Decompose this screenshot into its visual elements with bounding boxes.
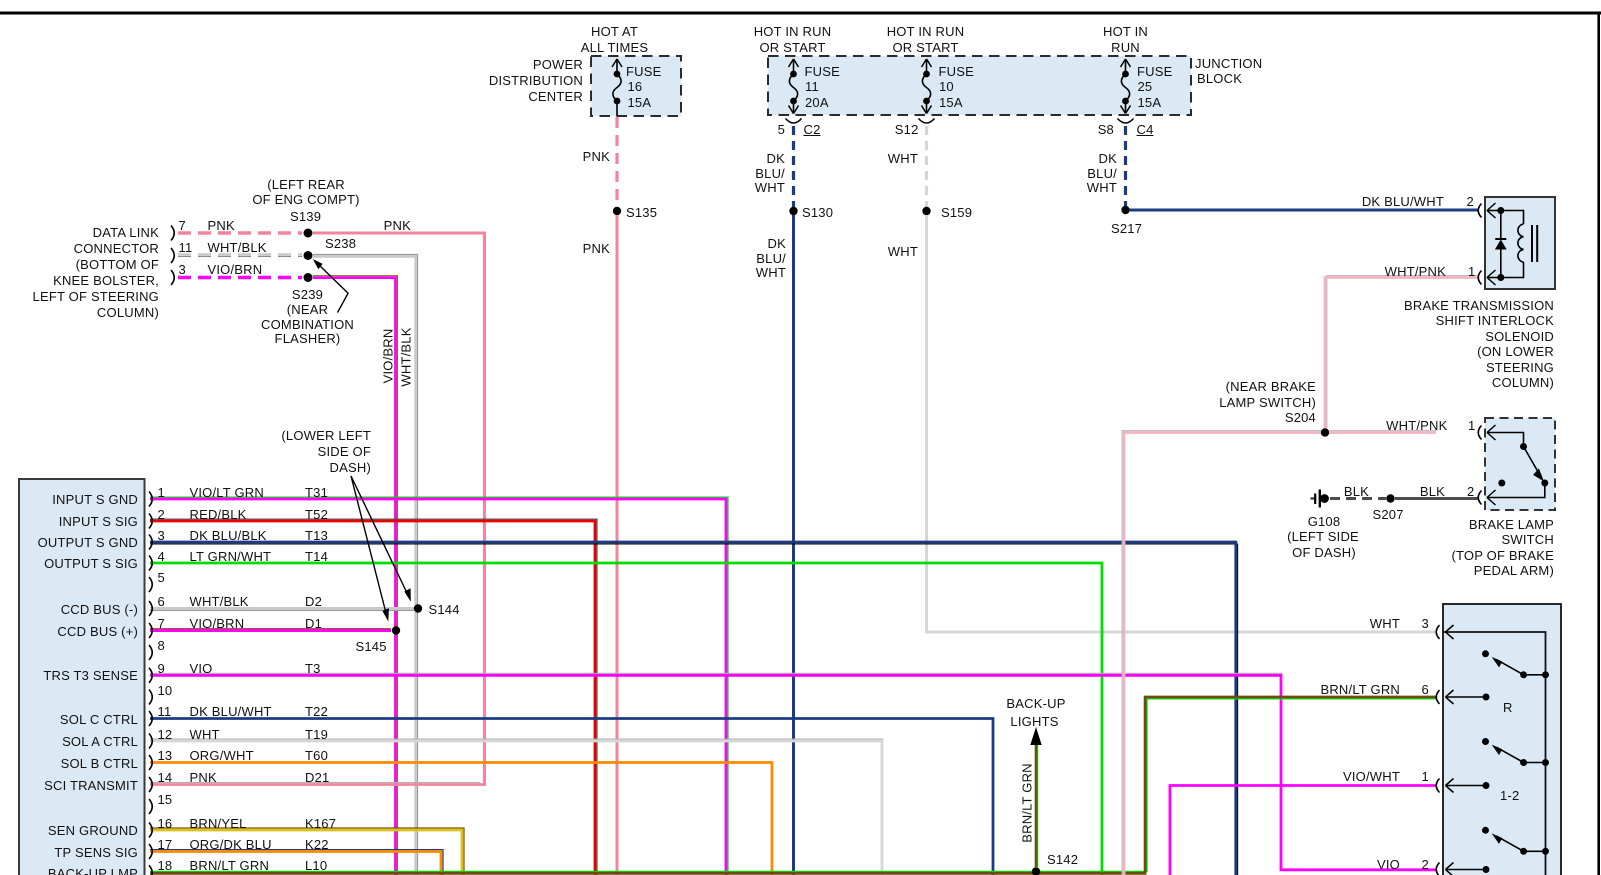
wire WHT from fuse 10 (dashed) <box>925 126 928 207</box>
wire PNK DLC pin 7 (dashed) to S139 <box>178 231 302 234</box>
wire DK BLU/WHT from fuse 11 (dashed) <box>792 126 795 207</box>
fuse F11 20A <box>789 59 799 114</box>
power distribution center box <box>591 56 681 116</box>
wire DK BLU/WHT from S217 to BTSI solenoid pin 2 <box>1129 209 1479 212</box>
wire WHT from S159 down to TRS pin 3 <box>927 215 1437 632</box>
solenoid pin 2 arrow <box>1487 203 1496 218</box>
wire BRN/YEL pin 16 (K167) <box>150 828 464 875</box>
wire BRN/LT GRN branch to back-up lights (arrow) <box>1037 744 1039 868</box>
arrow to splice S145 <box>351 476 386 613</box>
connector pin 3 bracket <box>149 535 152 550</box>
wire DK BLU/WHT pin 11 (T22) <box>150 719 993 875</box>
wire BLK from S207 to brake lamp switch pin 2 <box>1395 497 1479 500</box>
splice labels <box>626 206 657 219</box>
splice S145 <box>392 626 400 634</box>
wire VIO pin 9 (T3) to TRS pin 2 <box>150 672 1283 674</box>
TRS pin 2 bracket and arrow <box>1436 863 1439 875</box>
wire PNK from S135 down <box>616 215 619 875</box>
brake lamp switch pin 1 bracket <box>1478 426 1481 440</box>
splice S239 <box>304 273 313 282</box>
fuse F10 15A <box>922 59 932 114</box>
connector pin 5 bracket <box>149 577 152 592</box>
left connector signal labels <box>52 493 138 506</box>
DLC pin 3 bracket <box>171 270 174 285</box>
wire WHT pin 12 (T19) <box>150 738 884 740</box>
wire LT GRN/WHT pin 4 (T14) <box>150 563 1102 875</box>
connector pin 2 bracket <box>149 514 152 529</box>
left connector pin numbers and wire labels <box>158 486 165 499</box>
connector pin 14 bracket <box>149 777 152 792</box>
rotated riser labels <box>382 329 395 384</box>
brake lamp switch contacts <box>1487 443 1548 498</box>
page top border <box>0 12 1601 15</box>
wire DK BLU/BLK pin 3 (T13) <box>150 544 1238 875</box>
connector pin 9 bracket <box>149 668 152 683</box>
solenoid feed wire label <box>1362 195 1444 208</box>
wire VIO/WHT to TRS pin 1 <box>1170 786 1436 875</box>
solenoid labels <box>1385 265 1446 278</box>
solenoid diode <box>1495 207 1507 281</box>
connector pin 1 bracket <box>149 492 152 507</box>
brake lamp switch box <box>1485 418 1555 510</box>
connector bracket under fuse F11 20A <box>786 119 802 124</box>
junction block label <box>1195 57 1262 70</box>
power distribution center label <box>533 58 583 71</box>
wire WHT/BLK pin 6 (D2) to S144 <box>150 609 414 611</box>
junction block box <box>768 56 1191 115</box>
connector pin 17 bracket <box>149 844 152 859</box>
fuse F16 15A <box>612 59 622 116</box>
TRS switch low <box>1482 827 1549 855</box>
splice S207 <box>1386 494 1394 502</box>
BTSI solenoid box <box>1485 197 1555 289</box>
splice S217 <box>1121 206 1129 214</box>
wire DK BLU/WHT from fuse 25 (dashed) <box>1124 126 1127 206</box>
fuse value labels <box>626 65 661 78</box>
wire PNK from S139 right and down to pin 14 <box>313 233 485 786</box>
wire BLK from G108 to S207 (dashed) <box>1330 497 1386 500</box>
arrow from S239 note to splice <box>318 264 349 313</box>
wire ORG/WHT pin 13 (T60) <box>150 763 772 875</box>
fuse F25 15A <box>1121 59 1131 114</box>
wire VIO/BRN pin 7 (D1) to S145 <box>150 628 391 630</box>
DLC pin 11 bracket <box>171 248 174 263</box>
solenoid core bars <box>1531 225 1533 262</box>
TRS switch R <box>1482 650 1549 678</box>
fuse header labels <box>591 25 638 38</box>
wire VIO/LT GRN pin 1 (T31) <box>150 497 728 875</box>
TRS pin 1 bracket and arrow <box>1436 779 1439 793</box>
S144/S145 labels <box>429 603 460 616</box>
wire RED/BLK pin 2 (T52) <box>150 519 597 875</box>
ground G108 <box>1311 490 1329 508</box>
splice S139 <box>304 229 313 238</box>
S239 note <box>292 288 323 301</box>
DLC location label <box>93 226 159 239</box>
brake lamp switch pin 2 bracket <box>1478 491 1481 505</box>
wire VIO/BRN from S239 right and down (through S145) <box>313 276 397 875</box>
connector pin 18 bracket <box>149 865 152 875</box>
wire VIO/BRN DLC pin 3 (dashed) to S239 <box>178 276 302 280</box>
solenoid pin 1 bracket <box>1478 271 1481 285</box>
arrow to splice S144 <box>351 476 408 594</box>
wire BRN/LT GRN pin 18 (L10) to TRS pin 6 <box>150 699 1436 872</box>
wire WHT/PNK from S204 left and down <box>1122 431 1321 875</box>
brake lamp switch pin 2 arrow <box>1487 490 1496 505</box>
junction block pin labels <box>778 123 785 136</box>
solenoid pin 1 arrow <box>1487 270 1496 285</box>
connector pin 15 bracket <box>149 799 152 814</box>
brake lamp switch pin 1 arrow <box>1487 425 1496 440</box>
connector pin 6 bracket <box>149 601 152 616</box>
connector pin 10 bracket <box>149 690 152 705</box>
splice S159 <box>922 207 930 215</box>
connector pin 7 bracket <box>149 623 152 638</box>
DLC pin labels <box>179 219 186 232</box>
transmission range sensor box <box>1443 604 1561 875</box>
wire WHT/BLK DLC pin 11 (dashed) to S238 <box>178 256 302 258</box>
connector pin 12 bracket <box>149 734 152 749</box>
splice S130 <box>789 207 797 215</box>
splice S142 <box>1032 867 1040 875</box>
lower-left-of-dash note <box>281 429 371 442</box>
DLC pin 7 bracket <box>171 226 174 241</box>
splice S238 <box>304 251 313 260</box>
connector bracket under fuse F25 15A <box>1118 119 1134 124</box>
wire WHT/PNK solenoid pin 1 to S204 <box>1327 276 1479 428</box>
connector pin 13 bracket <box>149 755 152 770</box>
splice S135 <box>613 207 621 215</box>
connector pin 4 bracket <box>149 556 152 571</box>
TRS switch 1-2 <box>1482 738 1549 766</box>
transmission control module connector box <box>19 479 145 875</box>
connector pin 16 bracket <box>149 823 152 838</box>
brake lamp switch labels <box>1386 419 1447 432</box>
wire DK BLU/WHT from S130 down <box>792 215 795 875</box>
page right border <box>1597 12 1600 875</box>
connector pin 8 bracket <box>149 645 152 660</box>
solenoid pin 2 bracket <box>1478 204 1481 218</box>
wire PNK pin 14 (D21) to S139 riser <box>150 782 480 784</box>
TRS pin 3 bracket and arrow <box>1436 625 1439 639</box>
connector bracket under fuse F10 15A <box>919 119 935 124</box>
TRS pin 6 bracket and arrow <box>1436 690 1439 704</box>
solenoid coil <box>1501 211 1524 278</box>
wire WHT/PNK from S204 to brake lamp switch pin 1 <box>1329 430 1436 432</box>
feeder wire color labels <box>583 150 610 163</box>
back-up lights label <box>1006 697 1065 710</box>
S139 area labels <box>267 178 345 191</box>
splice S204 <box>1321 428 1329 436</box>
wire WHT/BLK from S238 right and down (through S144) <box>313 255 418 875</box>
wire ORG/DK BLU pin 17 (K22) <box>150 850 443 875</box>
S204 note <box>1226 380 1316 393</box>
connector pin 11 bracket <box>149 711 152 726</box>
wire PNK from fuse 16 (dashed) <box>615 117 618 207</box>
TRS inner boundary <box>1443 632 1546 875</box>
splice S144 <box>414 604 422 612</box>
TRS pin labels <box>1370 617 1400 630</box>
